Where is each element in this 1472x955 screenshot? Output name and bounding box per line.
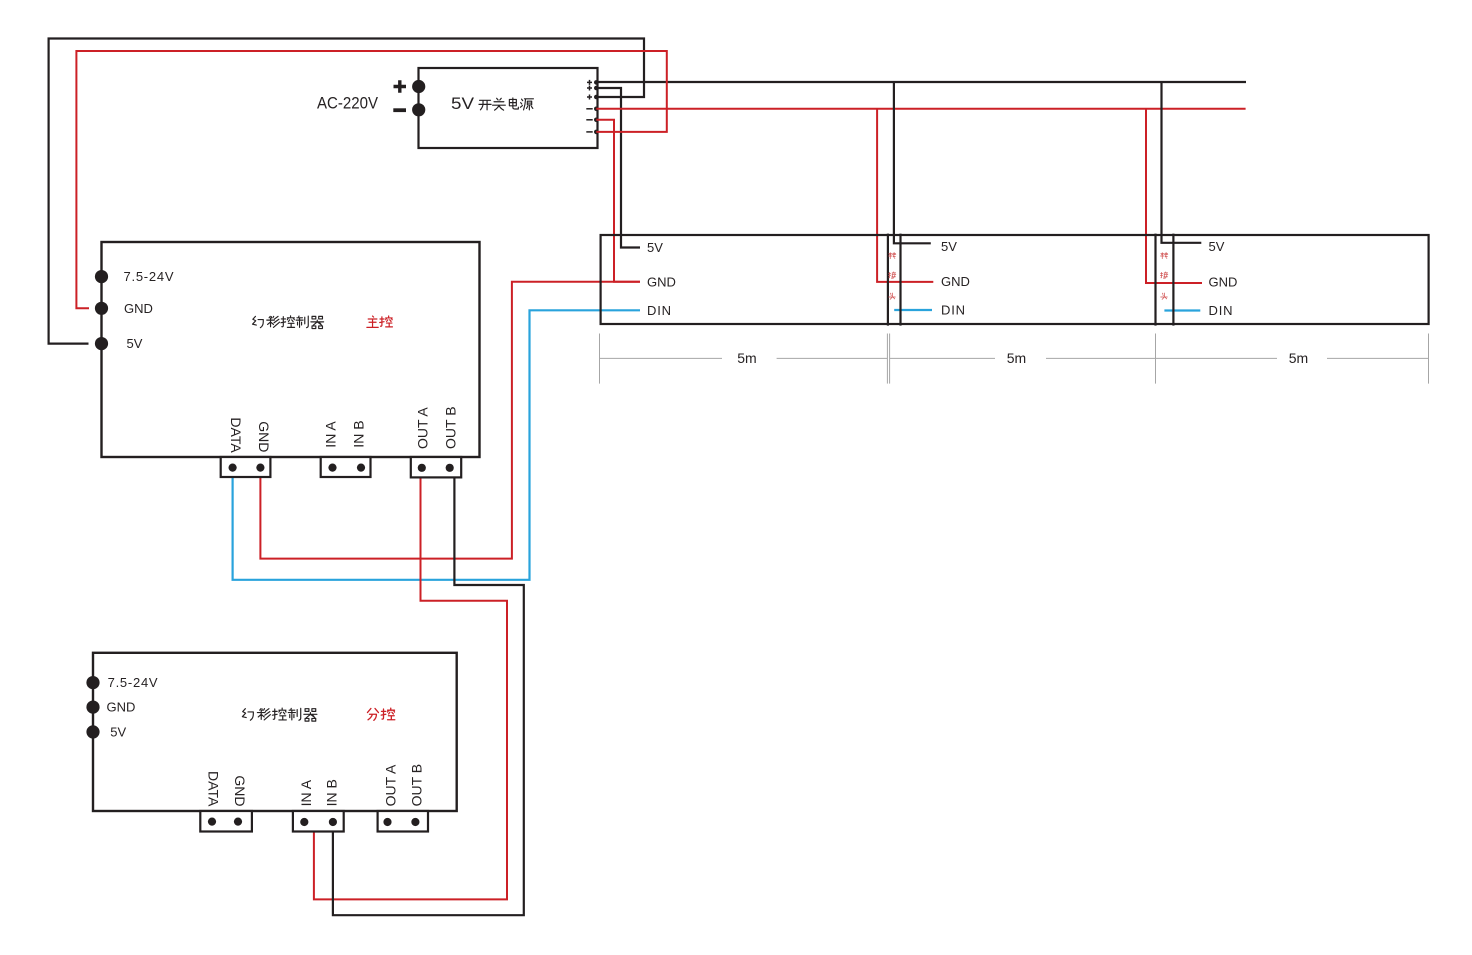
slave title 幻彩控制器 bbox=[242, 708, 317, 721]
slave terminal dot GND bbox=[86, 701, 99, 714]
wire blue strip2 DIN stub bbox=[894, 309, 932, 311]
svg-text:DATA: DATA bbox=[205, 771, 221, 807]
master connector block IN A/IN B bbox=[321, 457, 371, 477]
svg-text:OUT B: OUT B bbox=[443, 406, 459, 449]
slave controller box bbox=[93, 653, 457, 811]
connector 2 left edge bbox=[1154, 234, 1156, 326]
wire black bus drop to strip3 5V bbox=[1162, 82, 1202, 243]
svg-text:GND: GND bbox=[256, 421, 272, 452]
master terminal dot GND bbox=[95, 302, 108, 315]
minus terminal symbol bbox=[393, 108, 406, 112]
svg-text:OUT A: OUT A bbox=[383, 764, 399, 806]
strip1 labels bbox=[647, 240, 676, 318]
LED strip row outline bbox=[601, 235, 1429, 324]
wire black loop PSU +3 to master controller 5V bbox=[49, 39, 644, 344]
wire red GND bus from PSU -1 to far right bbox=[596, 108, 1245, 110]
adapter label 转接头 at connector 1 bbox=[888, 252, 896, 299]
svg-text:DIN: DIN bbox=[647, 303, 672, 318]
power supply 5V switching PSU box bbox=[419, 68, 598, 148]
master bottom pin labels (rotated) bbox=[228, 406, 459, 453]
svg-text:5m: 5m bbox=[1289, 350, 1308, 366]
svg-text:7.5-24V: 7.5-24V bbox=[108, 675, 158, 690]
slave title 分控 (red) bbox=[367, 708, 394, 720]
connector 1 right edge bbox=[899, 234, 901, 326]
slave connector block DATA/GND bbox=[200, 811, 252, 832]
svg-text:DIN: DIN bbox=[941, 303, 966, 318]
svg-text:5V: 5V bbox=[1209, 239, 1225, 254]
svg-text:5V: 5V bbox=[110, 725, 126, 740]
plus terminal dot bbox=[412, 80, 425, 93]
master title 主控 (red) bbox=[367, 316, 393, 327]
wire red master GND terminal to strip1 GND bbox=[260, 282, 640, 559]
wire red loop PSU -3 to master controller GND bbox=[76, 51, 666, 308]
svg-text:DATA: DATA bbox=[228, 417, 244, 453]
master connector block DATA/GND bbox=[221, 457, 271, 477]
svg-text:5V: 5V bbox=[941, 239, 957, 254]
svg-text:IN A: IN A bbox=[298, 779, 314, 806]
svg-text:OUT A: OUT A bbox=[414, 407, 430, 449]
wire black PSU +2 to strip1 5V bbox=[596, 88, 640, 248]
master title 幻彩控制器 bbox=[253, 316, 324, 329]
slave terminal labels bbox=[107, 675, 158, 739]
master terminal dot 7.5-24V bbox=[95, 270, 108, 283]
wire black 5V bus from PSU +1 to far right bbox=[596, 81, 1246, 83]
strip3 labels bbox=[1209, 239, 1238, 318]
svg-text:GND: GND bbox=[124, 301, 153, 316]
svg-text:IN A: IN A bbox=[322, 421, 338, 448]
svg-text:DIN: DIN bbox=[1209, 303, 1234, 318]
slave connector block IN A/IN B bbox=[293, 811, 344, 832]
adapter label 转接头 at connector 2 bbox=[1160, 252, 1168, 299]
svg-text:IN B: IN B bbox=[350, 420, 366, 447]
PSU output terminal marks bbox=[586, 80, 592, 132]
svg-text:IN B: IN B bbox=[324, 779, 340, 806]
svg-text:GND: GND bbox=[941, 274, 970, 289]
dimension ticks bbox=[600, 334, 1429, 384]
svg-text:5m: 5m bbox=[737, 350, 756, 366]
wire red bus drop to strip3 GND bbox=[1146, 109, 1202, 283]
master controller box bbox=[102, 242, 480, 457]
slave terminal dot 5V bbox=[86, 725, 99, 738]
slave connector block OUT A/OUT B bbox=[378, 811, 428, 832]
wire blue master DATA to strip1 DIN bbox=[233, 310, 640, 580]
PSU label 5V 开关电源 bbox=[451, 94, 533, 113]
wire blue strip3 DIN stub bbox=[1164, 309, 1200, 311]
minus terminal dot bbox=[412, 103, 425, 116]
svg-text:GND: GND bbox=[232, 775, 248, 806]
connector 1 left edge bbox=[887, 234, 889, 326]
strip2 labels bbox=[941, 239, 970, 318]
svg-text:AC-220V: AC-220V bbox=[317, 94, 379, 113]
wire black bus drop to strip2 5V bbox=[894, 82, 931, 243]
wire red bus drop to strip2 GND bbox=[877, 109, 933, 282]
svg-text:5V: 5V bbox=[127, 336, 143, 351]
plus terminal symbol bbox=[394, 80, 407, 92]
svg-text:5V: 5V bbox=[451, 94, 475, 113]
svg-text:5m: 5m bbox=[1007, 350, 1026, 366]
slave bottom pin labels (rotated) bbox=[205, 764, 424, 807]
connector 2 right edge bbox=[1172, 234, 1174, 326]
svg-text:GND: GND bbox=[1209, 275, 1238, 290]
svg-text:OUT B: OUT B bbox=[408, 764, 424, 807]
svg-text:5V: 5V bbox=[647, 240, 663, 255]
svg-text:GND: GND bbox=[107, 700, 136, 715]
dimension lines bbox=[600, 357, 1429, 359]
master terminal dot 5V bbox=[95, 337, 108, 350]
wire red master OUT A to slave IN A bbox=[314, 468, 507, 899]
PSU output terminal dots bbox=[594, 80, 599, 134]
master terminal labels bbox=[124, 269, 174, 351]
wire red PSU -2 to strip1 GND bbox=[596, 120, 640, 282]
svg-text:GND: GND bbox=[647, 274, 676, 289]
wire black master OUT B to slave IN B bbox=[333, 477, 524, 915]
master connector block OUT A/OUT B bbox=[411, 457, 461, 477]
svg-text:7.5-24V: 7.5-24V bbox=[124, 269, 174, 284]
slave terminal dot 7.5-24V bbox=[86, 676, 99, 689]
